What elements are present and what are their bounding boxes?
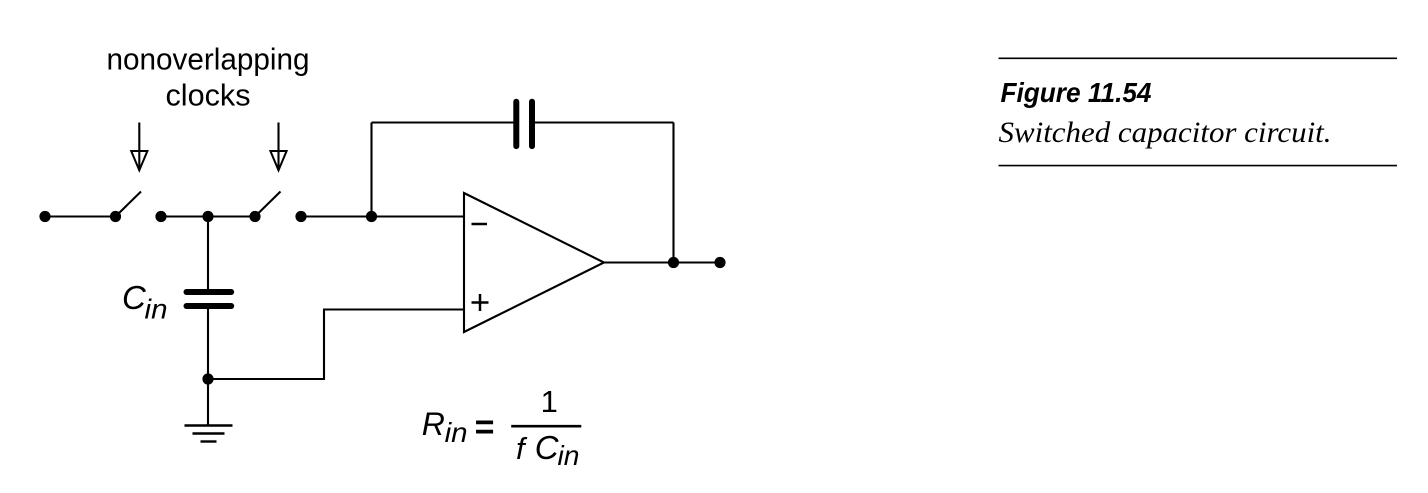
caption rule bottom	[999, 165, 1398, 167]
node A junction Cin	[202, 211, 213, 222]
switch S2 blade	[256, 192, 281, 216]
caption rule top	[999, 57, 1398, 59]
op-amp minus sign	[472, 223, 488, 226]
wire S1 to junction A	[161, 215, 255, 217]
svg-text:1: 1	[541, 384, 558, 419]
node input terminal	[39, 211, 50, 222]
wire op-amp output	[604, 261, 720, 263]
wire input to switch S1	[45, 215, 116, 217]
op-amp plus sign	[472, 294, 489, 311]
svg-text:f: f	[516, 431, 528, 466]
label Cin	[122, 279, 168, 325]
svg-text:=: =	[475, 409, 495, 447]
svg-text:nonoverlapping: nonoverlapping	[107, 42, 310, 77]
wire feedback right vertical	[672, 123, 674, 263]
node after S1	[155, 211, 166, 222]
svg-text:clocks: clocks	[166, 78, 251, 113]
node B feedback junction	[366, 211, 377, 222]
wire ground node to op-amp plus input	[208, 310, 464, 381]
svg-text:in: in	[445, 417, 468, 448]
switch S2 contact node	[249, 211, 260, 222]
svg-text:Switched capacitor circuit.: Switched capacitor circuit.	[999, 116, 1332, 149]
op-amp U1	[464, 193, 604, 332]
node after S2	[295, 211, 306, 222]
node output junction	[668, 257, 679, 268]
node C ground junction	[202, 373, 213, 384]
node output terminal	[714, 257, 725, 268]
svg-text:Figure 11.54: Figure 11.54	[1001, 77, 1152, 108]
ground	[185, 379, 233, 442]
svg-text:C: C	[535, 429, 560, 466]
clock arrow 1	[131, 123, 147, 171]
svg-text:R: R	[422, 406, 445, 442]
svg-text:in: in	[558, 440, 580, 471]
wire node A to Cin	[207, 217, 209, 290]
wire feedback left vertical	[370, 123, 372, 217]
svg-text:C: C	[122, 279, 147, 316]
svg-text:in: in	[145, 293, 168, 324]
switch S1 contact node	[110, 211, 121, 222]
wire feedback top left	[372, 121, 515, 123]
wire feedback top right	[535, 121, 674, 123]
wire S2 to op-amp inverting input	[301, 215, 464, 217]
capacitor C2 feedback	[516, 102, 532, 146]
capacitor C1 Cin	[187, 292, 232, 306]
wire Cin to ground node	[207, 309, 209, 380]
label: nonoverlapping clocks	[107, 42, 310, 113]
label formula Rin = 1/(f Cin)	[422, 384, 582, 471]
clock arrow 2	[270, 123, 286, 171]
switch S1 blade	[117, 192, 142, 216]
